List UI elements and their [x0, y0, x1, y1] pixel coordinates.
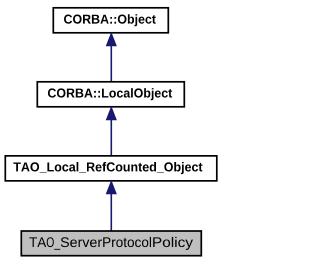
inheritance arrow: CORBA::LocalObject to CORBA::Object	[106, 33, 116, 82]
inheritance arrow: TAO_Local_RefCounted_Object to CORBA::LocalObject	[106, 107, 116, 156]
class box CORBA::Object	[53, 8, 168, 33]
inheritance arrow: TAO_ServerProtocolPolicy to TAO_Local_RefCounted_Object	[106, 181, 116, 231]
class box TAO_Local_RefCounted_Object	[5, 156, 217, 181]
class box CORBA::LocalObject	[37, 82, 184, 107]
class box TAO_ServerProtocolPolicy (current class, grey)	[21, 231, 201, 256]
